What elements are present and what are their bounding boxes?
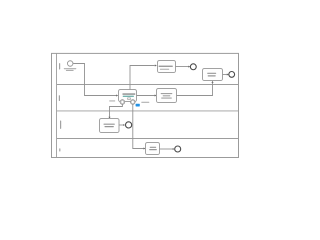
wire task D to task B bbox=[177, 83, 213, 96]
blue badge bbox=[136, 104, 140, 107]
lane 4 label bbox=[59, 148, 60, 151]
wire boundary left to task E bbox=[110, 104, 123, 117]
end event E bbox=[126, 122, 132, 128]
arrowhead into end E bbox=[123, 124, 125, 126]
pool label divider bbox=[56, 53, 58, 157]
wire task A to end event A bbox=[176, 66, 189, 68]
end event B bbox=[229, 72, 235, 78]
task F (lane 4) bbox=[146, 143, 160, 155]
wire boundary right to task F bbox=[133, 104, 144, 148]
end event A bbox=[190, 64, 196, 70]
task C text line 2 (teal link) bbox=[123, 96, 134, 97]
start event bbox=[67, 61, 73, 67]
task D text bbox=[161, 93, 173, 94]
task E text bbox=[104, 124, 115, 125]
arrowhead into task A bbox=[155, 64, 157, 66]
arrowhead into task E top bbox=[108, 117, 110, 119]
task A (top lane) bbox=[158, 61, 176, 73]
arrowhead into task D bbox=[155, 94, 157, 96]
lane divider 3 bbox=[57, 138, 238, 140]
start event label bbox=[64, 68, 77, 69]
arrowhead into task C bbox=[116, 94, 118, 96]
arrowhead into end B bbox=[227, 74, 229, 76]
task C subprocess marker bbox=[128, 98, 131, 100]
wire task F to end event F bbox=[160, 148, 173, 150]
lane 3 label bbox=[60, 121, 61, 129]
task A text bbox=[159, 66, 173, 67]
lane 2 label bbox=[59, 95, 60, 101]
wire start to task C bbox=[73, 64, 116, 96]
arrowhead into task F bbox=[144, 147, 146, 149]
task B text bbox=[207, 73, 216, 74]
task C text line 1 bbox=[122, 93, 135, 94]
wire task E to end event E bbox=[119, 124, 123, 126]
task C (central) bbox=[119, 90, 137, 102]
lane 1 label bbox=[59, 63, 60, 69]
task D (lane 2 right) bbox=[157, 89, 177, 103]
task F text bbox=[150, 147, 157, 148]
task E (lane 3) bbox=[100, 119, 120, 133]
label right of blue badge bbox=[141, 102, 149, 103]
arrowhead into task B bottom bbox=[211, 81, 213, 83]
wire task C top to task A bbox=[130, 66, 155, 90]
lane divider 1 bbox=[57, 84, 238, 86]
label left of boundary event bbox=[109, 100, 115, 101]
wire task C to task D bbox=[137, 95, 156, 97]
wire task B to end event B bbox=[223, 74, 228, 76]
lane divider 2 bbox=[57, 110, 238, 112]
boundary event left (timer) bbox=[120, 100, 125, 105]
end event F bbox=[175, 146, 181, 152]
arrowhead into end A bbox=[188, 66, 190, 68]
pool (participant) border bbox=[52, 53, 239, 157]
task B (top right) bbox=[203, 69, 223, 81]
arrowhead into end F bbox=[173, 148, 175, 150]
boundary event right (timer) bbox=[131, 100, 136, 105]
